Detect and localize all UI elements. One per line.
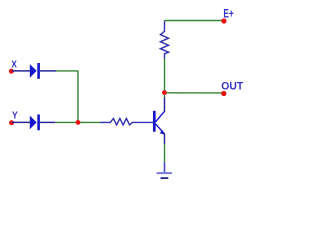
resistor R1 (collector, vertical): [160, 21, 168, 59]
transistor Q1: [154, 111, 164, 135]
wire Y anode lead: [12, 121, 30, 123]
wire Y cathode lead: [40, 121, 55, 123]
svg-text:E+: E+: [223, 7, 233, 21]
diode D2: [30, 115, 40, 131]
svg-text:X: X: [11, 60, 17, 71]
node collector junction: [162, 90, 167, 95]
wire resistor to node (green): [164, 59, 166, 98]
node Y terminal: [9, 120, 14, 125]
wire junction to resistor (green): [78, 121, 100, 123]
wire node to OUT (green): [164, 92, 222, 94]
ground: [157, 162, 172, 178]
wire Y to junction (green): [55, 121, 78, 123]
wire X to corner (green): [56, 71, 78, 123]
node OUT terminal: [221, 91, 226, 96]
wire E+ rail (green): [165, 20, 223, 22]
wire emitter (blue): [164, 134, 166, 145]
svg-text:Y: Y: [12, 111, 18, 122]
svg-text:OUT: OUT: [221, 80, 243, 92]
wire collector (blue): [164, 97, 166, 112]
node X terminal: [9, 69, 14, 74]
wire X cathode lead: [40, 70, 56, 72]
node E+ terminal: [221, 18, 226, 23]
wire X anode lead: [12, 70, 30, 72]
resistor R2 (base): [100, 118, 153, 125]
diode D1: [30, 63, 40, 79]
junction node: [76, 120, 81, 125]
wire emitter to ground (green): [164, 144, 166, 162]
